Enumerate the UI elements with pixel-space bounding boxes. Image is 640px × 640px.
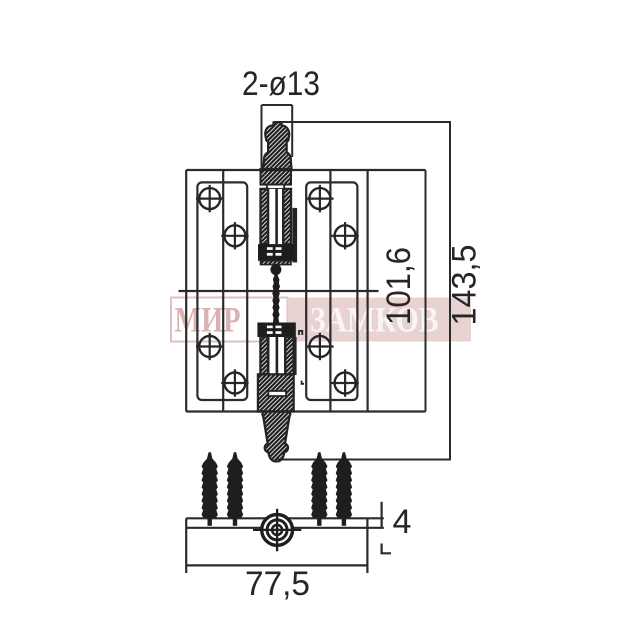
svg-text:101,6: 101,6 <box>380 247 418 325</box>
bottom finial <box>262 412 290 462</box>
collar under band 1 <box>261 261 292 265</box>
white slit <box>267 185 284 189</box>
upper knuckle collar <box>261 169 292 185</box>
leaf notch hook lower <box>302 381 305 384</box>
black junction band 2 <box>257 323 295 338</box>
hole 3 <box>196 333 223 360</box>
svg-text:ЗАМКОВ: ЗАМКОВ <box>310 300 439 340</box>
dim 4 upper leader line <box>381 502 383 528</box>
plate top edge + 4 extension <box>186 517 384 519</box>
body bottom edge + 101,6 extension <box>186 410 425 412</box>
lower shaft wide section <box>258 374 294 411</box>
hole 1 <box>196 185 223 212</box>
upper knuckle bore with pin <box>268 189 283 244</box>
centerline (horizontal axis) <box>179 290 379 292</box>
screw 3 <box>311 452 327 526</box>
plate left edge + 77,5 extension line <box>185 518 187 573</box>
hole 7 <box>306 333 333 360</box>
right knuckle bar lower <box>293 337 297 375</box>
right knuckle bar upper <box>292 208 297 263</box>
knuckle circle (side view) with crosshair <box>253 509 301 552</box>
dim 101,6 vertical line <box>425 170 427 412</box>
screw 2 <box>227 452 243 526</box>
dim 77,5 dimension line <box>186 564 367 566</box>
svg-text:143,5: 143,5 <box>446 245 484 326</box>
hole 8 <box>331 369 358 396</box>
svg-text:4: 4 <box>393 503 412 541</box>
hole 2 <box>221 222 248 249</box>
body left edge <box>185 170 187 412</box>
plate lines <box>186 502 391 573</box>
screw 4 <box>336 452 352 526</box>
screw holes <box>196 185 359 397</box>
body top edge + 101,6 extension <box>186 169 425 171</box>
right leaf inner rounded rect <box>306 182 357 400</box>
dim 2-ø13 right extension line <box>291 105 293 157</box>
plate bottom edge + 4 extension <box>186 527 384 529</box>
right leaf divider line <box>329 170 331 412</box>
wavy pin <box>272 273 280 323</box>
watermark pink box <box>288 298 472 342</box>
lower knuckle bore with pin <box>268 337 285 374</box>
hole 4 <box>221 369 248 396</box>
lower knuckle hatched walls <box>260 337 293 374</box>
dim 2-ø13 left extension line <box>261 105 263 169</box>
left leaf inner rounded rect <box>197 182 247 400</box>
plate right edge + 77,5 extension line <box>366 518 368 573</box>
black junction band 1 <box>258 244 295 261</box>
svg-text:МИР: МИР <box>175 300 241 340</box>
hole 5 <box>306 185 333 212</box>
leaf notch hook upper <box>299 331 302 335</box>
upper knuckle hatched walls <box>261 189 292 244</box>
ball <box>270 264 281 275</box>
watermark white box with border <box>171 298 288 342</box>
left leaf divider line <box>222 170 224 412</box>
dim 143,5 bracket (top ext, vertical, bottom ext) <box>274 122 450 460</box>
svg-text:77,5: 77,5 <box>245 565 310 603</box>
screw 1 <box>202 452 218 526</box>
dim 2-ø13 horizontal line <box>262 104 293 106</box>
top finial <box>263 122 291 170</box>
dim 4 lower leader with foot <box>382 544 391 554</box>
hole 6 <box>331 222 358 249</box>
body right edge <box>367 170 369 412</box>
svg-text:2-ø13: 2-ø13 <box>242 65 320 103</box>
